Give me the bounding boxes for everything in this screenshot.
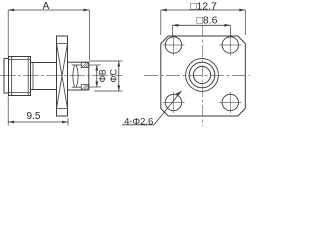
svg-text:□8.6: □8.6: [197, 14, 218, 26]
svg-text:9.5: 9.5: [27, 111, 41, 122]
svg-text:ΦC: ΦC: [108, 68, 118, 82]
svg-text:□12.7: □12.7: [190, 0, 217, 12]
svg-text:A: A: [43, 1, 50, 12]
svg-text:4-Φ2.6: 4-Φ2.6: [124, 116, 153, 127]
svg-text:ΦB: ΦB: [97, 69, 107, 82]
